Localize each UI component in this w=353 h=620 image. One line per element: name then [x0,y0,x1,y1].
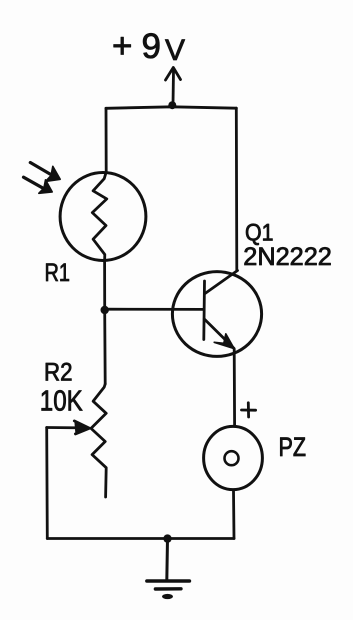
wire wiper arrow [47,421,90,434]
label +9V [112,27,185,68]
light arrows [24,163,61,194]
transistor Q1 [172,271,261,357]
wire base [105,308,204,311]
wire base node to R2 [103,310,106,384]
power +9V arrow [166,68,181,105]
photoresistor R1 [60,172,146,261]
wire top rail [106,107,236,109]
svg-text:R2: R2 [44,359,73,387]
wire PZ to bottom rail [232,491,235,539]
ground [147,539,190,599]
wire R1 to base node [103,261,106,306]
svg-text:2N2222: 2N2222 [243,243,331,271]
wire emitter to PZ [233,349,236,426]
svg-text:9: 9 [142,27,161,66]
label PZ [279,432,307,462]
label Q1 2N2222 [243,219,331,271]
wire bottom rail [47,537,234,540]
wire collector [235,108,238,270]
svg-text:PZ: PZ [279,432,307,462]
svg-text:R1: R1 [45,259,71,287]
node ground junction [163,534,171,542]
svg-text:+: + [112,27,132,66]
node base junction [101,306,109,314]
node top junction [168,101,176,109]
label plus [242,403,256,417]
wire wiper to bottom rail [45,428,48,539]
piezo PZ [204,426,263,489]
svg-text:10K: 10K [40,385,84,417]
svg-text:V: V [165,34,185,67]
label R1 [45,259,71,287]
potentiometer R2 [91,384,106,497]
label R2 10K [40,359,84,418]
wire rail to R1 [105,108,108,172]
